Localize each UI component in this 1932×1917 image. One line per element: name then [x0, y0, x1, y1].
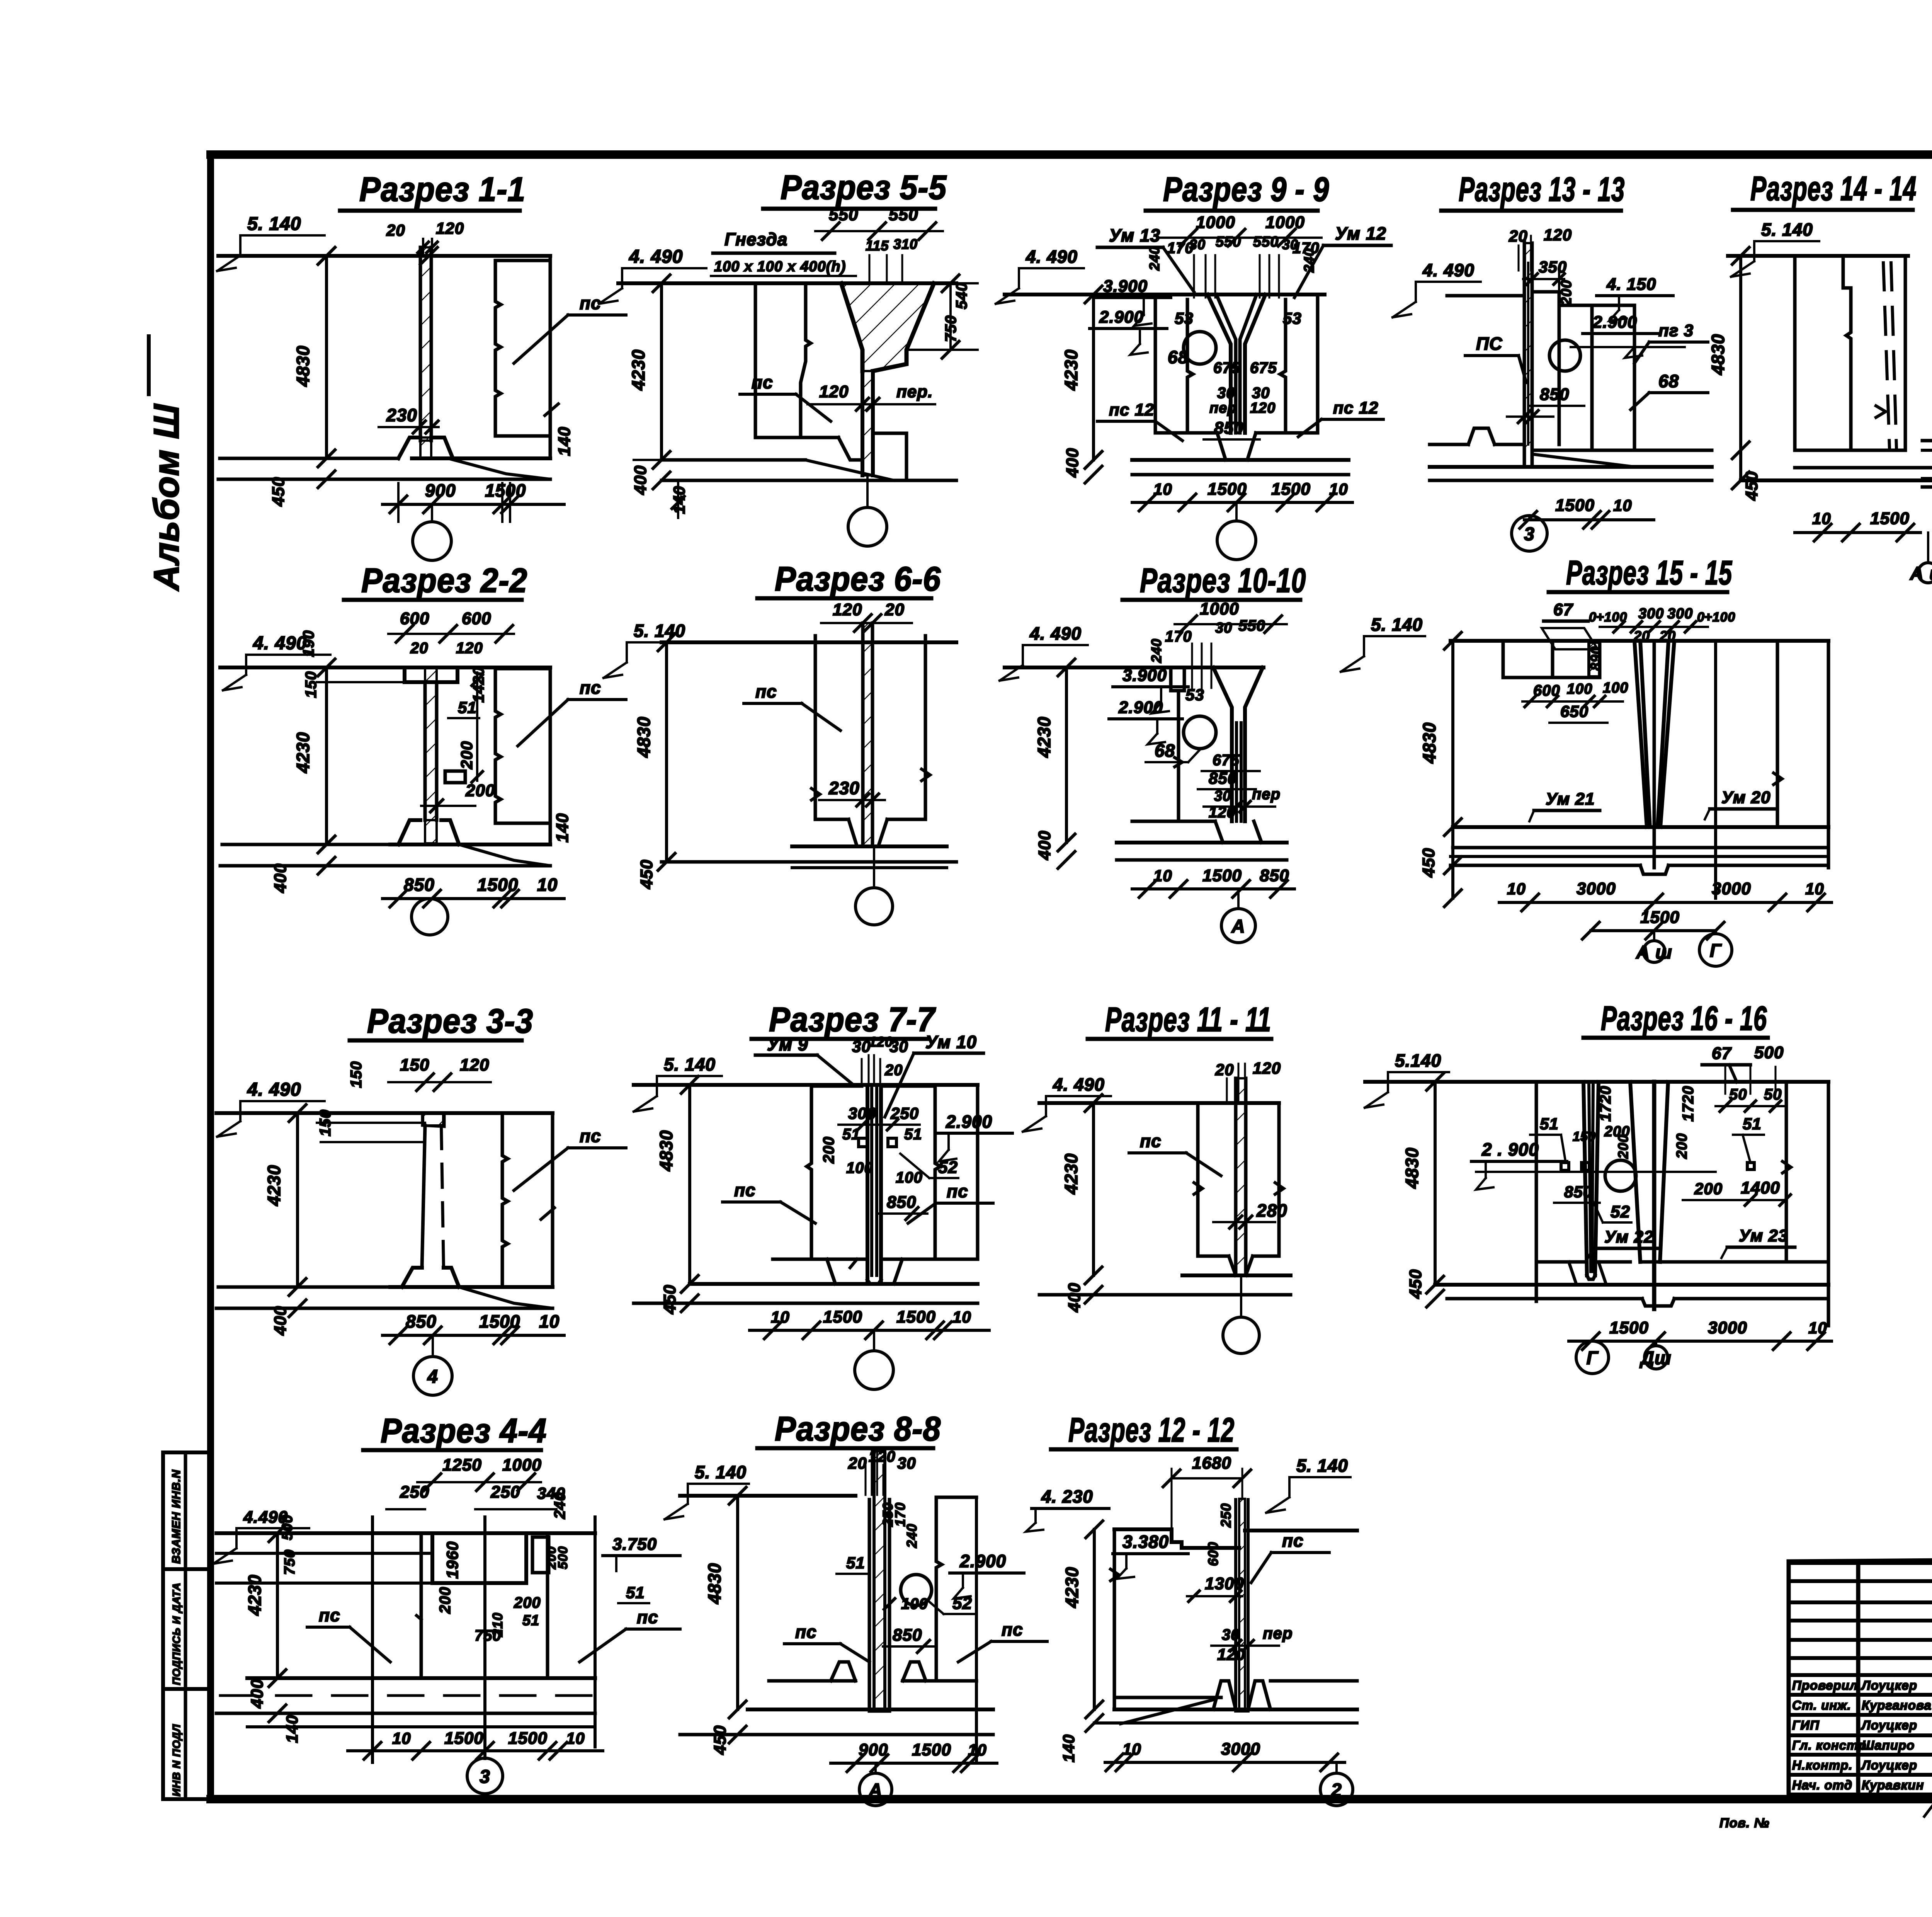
svg-text:600: 600	[1205, 1542, 1221, 1566]
svg-text:400: 400	[1065, 1283, 1084, 1313]
svg-text:51: 51	[1743, 1115, 1762, 1133]
svg-text:Куравкин: Куравкин	[1862, 1778, 1924, 1792]
svg-text:230: 230	[386, 405, 417, 425]
svg-text:100: 100	[1567, 681, 1592, 697]
svg-text:3: 3	[480, 1767, 490, 1787]
svg-text:120: 120	[1544, 226, 1572, 244]
svg-text:53: 53	[1185, 686, 1204, 704]
svg-text:140: 140	[553, 813, 572, 843]
svg-text:4830: 4830	[293, 346, 313, 387]
svg-text:20: 20	[1215, 1061, 1234, 1079]
svg-text:540: 540	[953, 282, 970, 309]
svg-text:450: 450	[269, 477, 288, 507]
svg-text:1500: 1500	[896, 1308, 936, 1326]
svg-text:53: 53	[1283, 309, 1302, 327]
svg-text:10: 10	[1613, 496, 1632, 514]
svg-text:Ум 12: Ум 12	[1335, 223, 1386, 243]
svg-text:3000: 3000	[1712, 879, 1751, 898]
svg-text:68: 68	[1155, 741, 1175, 761]
svg-text:ИНВ N ПОДЛ: ИНВ N ПОДЛ	[170, 1724, 182, 1796]
svg-text:4230: 4230	[1062, 1567, 1082, 1608]
svg-text:51: 51	[842, 1126, 861, 1143]
svg-text:2.900: 2.900	[946, 1112, 992, 1132]
svg-text:190: 190	[300, 630, 317, 657]
svg-text:400: 400	[271, 1306, 290, 1336]
svg-text:пс: пс	[580, 678, 601, 698]
svg-text:2 . 900: 2 . 900	[1481, 1139, 1539, 1159]
svg-text:пс: пс	[319, 1605, 340, 1625]
svg-text:4230: 4230	[628, 349, 648, 391]
svg-text:1000: 1000	[1200, 599, 1239, 618]
svg-text:1500: 1500	[1609, 1318, 1649, 1337]
svg-text:20: 20	[410, 640, 429, 657]
svg-text:Разрез 2-2: Разрез 2-2	[361, 561, 527, 599]
svg-text:Лоуцкер: Лоуцкер	[1861, 1718, 1917, 1732]
svg-text:Лоуцкер: Лоуцкер	[1861, 1758, 1917, 1772]
svg-text:550: 550	[1216, 234, 1241, 250]
svg-text:Ум 22: Ум 22	[1604, 1227, 1653, 1246]
svg-text:1500: 1500	[477, 875, 518, 895]
svg-text:4230: 4230	[1061, 1153, 1081, 1195]
svg-text:30: 30	[1222, 1626, 1240, 1643]
svg-text:170: 170	[1165, 628, 1192, 645]
svg-text:1680: 1680	[1192, 1454, 1231, 1473]
svg-text:150: 150	[400, 1056, 429, 1074]
svg-text:150: 150	[303, 671, 320, 698]
svg-text:пс 12: пс 12	[1333, 398, 1379, 417]
svg-text:Разрез 3-3: Разрез 3-3	[367, 1002, 533, 1040]
svg-text:2.900: 2.900	[1118, 698, 1163, 717]
svg-text:1000: 1000	[502, 1456, 542, 1474]
svg-text:200: 200	[514, 1594, 541, 1611]
svg-text:400: 400	[631, 465, 650, 495]
svg-text:500: 500	[1754, 1043, 1784, 1062]
svg-text:3.900: 3.900	[1103, 277, 1148, 296]
svg-text:1500: 1500	[479, 1311, 520, 1331]
svg-text:1720: 1720	[1680, 1086, 1697, 1122]
svg-text:Разрез 7-7: Разрез 7-7	[769, 1000, 936, 1039]
svg-text:Гнезда: Гнезда	[724, 229, 787, 249]
svg-text:3.900: 3.900	[1122, 666, 1167, 685]
svg-text:120: 120	[1250, 400, 1276, 416]
svg-text:4830: 4830	[1402, 1147, 1422, 1189]
svg-text:30: 30	[1282, 237, 1298, 252]
svg-text:120: 120	[460, 1056, 489, 1074]
svg-text:5. 140: 5. 140	[1296, 1456, 1348, 1476]
svg-text:пс: пс	[752, 372, 773, 392]
svg-text:400: 400	[1035, 831, 1054, 860]
svg-text:Разрез 12 - 12: Разрез 12 - 12	[1068, 1411, 1235, 1449]
svg-text:10: 10	[566, 1729, 585, 1747]
svg-text:240: 240	[551, 1492, 568, 1519]
svg-text:250: 250	[400, 1483, 429, 1502]
svg-text:1500: 1500	[1555, 496, 1595, 515]
svg-text:4830: 4830	[1708, 334, 1728, 375]
svg-text:53: 53	[1175, 309, 1194, 327]
svg-text:850: 850	[404, 875, 435, 895]
svg-text:А ш: А ш	[1636, 942, 1672, 963]
svg-text:100 х 100 х 400(h): 100 х 100 х 400(h)	[714, 259, 846, 275]
svg-text:1500: 1500	[508, 1729, 548, 1748]
svg-text:100: 100	[896, 1169, 923, 1186]
svg-text:3: 3	[1524, 524, 1535, 545]
svg-text:пер: пер	[1252, 786, 1281, 803]
svg-text:4230: 4230	[264, 1165, 284, 1206]
svg-text:Г: Г	[1587, 1348, 1599, 1369]
svg-text:3000: 3000	[1708, 1318, 1747, 1337]
svg-text:Шапиро: Шапиро	[1862, 1738, 1915, 1752]
svg-text:4. 490: 4. 490	[247, 1079, 301, 1100]
svg-text:20: 20	[848, 1454, 867, 1472]
svg-text:150: 150	[348, 1061, 365, 1088]
svg-text:450: 450	[1419, 848, 1438, 878]
svg-text:1500: 1500	[1207, 480, 1247, 499]
svg-text:67: 67	[1553, 600, 1573, 619]
svg-text:250: 250	[890, 1104, 919, 1122]
svg-text:пс: пс	[1140, 1131, 1162, 1151]
svg-text:120: 120	[819, 382, 849, 401]
svg-text:ПОДПИСЬ И ДАТА: ПОДПИСЬ И ДАТА	[170, 1582, 182, 1685]
svg-text:5. 140: 5. 140	[247, 214, 301, 234]
svg-text:4. 490: 4. 490	[253, 633, 307, 654]
svg-text:850: 850	[893, 1626, 922, 1645]
svg-text:120: 120	[869, 1034, 893, 1050]
svg-text:Ум 20: Ум 20	[1721, 788, 1770, 807]
svg-text:120: 120	[1209, 804, 1236, 821]
svg-text:675: 675	[1213, 752, 1240, 769]
svg-text:450: 450	[637, 860, 656, 889]
svg-text:4. 490: 4. 490	[1029, 623, 1082, 644]
svg-text:10: 10	[539, 1311, 560, 1331]
svg-text:51: 51	[1540, 1115, 1559, 1133]
svg-text:850: 850	[1540, 385, 1569, 404]
svg-text:2: 2	[1331, 1780, 1342, 1801]
svg-text:170: 170	[892, 1502, 908, 1527]
svg-text:1300: 1300	[1205, 1574, 1244, 1593]
svg-text:450: 450	[660, 1285, 679, 1314]
svg-text:Дш: Дш	[1639, 1348, 1671, 1369]
svg-text:650: 650	[1560, 702, 1588, 720]
svg-text:1500: 1500	[1271, 480, 1311, 499]
svg-text:150: 150	[1573, 1129, 1596, 1144]
svg-text:300: 300	[848, 1104, 876, 1122]
svg-text:пер.: пер.	[896, 382, 933, 401]
svg-text:200: 200	[820, 1136, 837, 1164]
svg-text:Разрез 15 - 15: Разрез 15 - 15	[1566, 553, 1732, 592]
svg-text:пс: пс	[1002, 1619, 1023, 1639]
svg-text:10: 10	[537, 875, 558, 895]
svg-text:Разрез 1-1: Разрез 1-1	[359, 170, 526, 208]
svg-text:пс: пс	[795, 1622, 817, 1642]
svg-text:1000: 1000	[1196, 213, 1235, 232]
svg-text:4830: 4830	[1419, 722, 1439, 764]
svg-text:Гл. констр.: Гл. констр.	[1792, 1738, 1871, 1752]
svg-text:3000: 3000	[1221, 1740, 1260, 1759]
svg-text:А: А	[868, 1780, 883, 1801]
svg-text:Разрез 9 - 9: Разрез 9 - 9	[1163, 170, 1329, 208]
svg-text:Г: Г	[1710, 941, 1722, 961]
svg-text:100: 100	[846, 1159, 873, 1176]
svg-text:пер: пер	[1263, 1624, 1293, 1642]
svg-text:пс 12: пс 12	[1109, 400, 1155, 419]
svg-text:51: 51	[522, 1612, 539, 1629]
svg-text:5. 140: 5. 140	[664, 1054, 716, 1074]
svg-text:ПС: ПС	[1476, 334, 1502, 354]
svg-text:550: 550	[1253, 234, 1279, 250]
svg-text:300: 300	[1667, 606, 1693, 622]
svg-text:200: 200	[1694, 1180, 1723, 1198]
svg-text:4230: 4230	[245, 1575, 265, 1616]
svg-text:51: 51	[626, 1583, 645, 1602]
svg-text:Разрез 8-8: Разрез 8-8	[775, 1410, 941, 1448]
svg-text:Нач. отд: Нач. отд	[1792, 1778, 1852, 1792]
svg-text:4230: 4230	[1034, 717, 1054, 758]
svg-text:240: 240	[904, 1524, 920, 1548]
svg-text:120: 120	[436, 219, 464, 237]
svg-text:300: 300	[1638, 606, 1664, 622]
svg-text:900: 900	[859, 1740, 888, 1759]
svg-text:10: 10	[968, 1741, 987, 1759]
svg-text:1500: 1500	[485, 480, 526, 501]
svg-text:пс: пс	[734, 1180, 756, 1200]
svg-text:675: 675	[1213, 359, 1240, 376]
svg-text:1500: 1500	[444, 1729, 484, 1748]
svg-text:400: 400	[1063, 448, 1082, 478]
svg-text:4: 4	[427, 1367, 438, 1387]
svg-text:100: 100	[901, 1595, 928, 1612]
svg-text:2.900: 2.900	[1592, 313, 1637, 332]
svg-text:4830: 4830	[704, 1563, 724, 1604]
svg-text:240: 240	[1148, 638, 1164, 663]
svg-text:1500: 1500	[1202, 866, 1242, 885]
svg-text:10: 10	[1153, 480, 1172, 498]
svg-text:140: 140	[555, 427, 574, 456]
svg-text:1000: 1000	[1265, 213, 1305, 232]
svg-text:850: 850	[1209, 769, 1237, 787]
svg-text:Разрез 5-5: Разрез 5-5	[781, 168, 947, 206]
svg-text:пс: пс	[755, 681, 777, 701]
svg-text:600: 600	[462, 609, 491, 628]
svg-text:4. 490: 4. 490	[1053, 1074, 1105, 1095]
svg-text:310: 310	[893, 236, 918, 252]
svg-text:Ум 10: Ум 10	[925, 1032, 977, 1052]
svg-text:3.750: 3.750	[612, 1535, 657, 1554]
svg-text:850: 850	[1260, 866, 1289, 885]
svg-text:200: 200	[457, 741, 476, 770]
svg-text:400: 400	[271, 863, 290, 893]
svg-text:пг 3: пг 3	[1658, 321, 1694, 340]
svg-text:3.380: 3.380	[1122, 1532, 1169, 1552]
svg-text:4230: 4230	[293, 732, 313, 773]
svg-text:Разрез 6-6: Разрез 6-6	[775, 560, 941, 598]
svg-text:120: 120	[833, 600, 862, 619]
svg-text:140: 140	[1060, 1734, 1078, 1762]
svg-text:пс: пс	[637, 1607, 658, 1627]
svg-text:Разрез 14 - 14: Разрез 14 - 14	[1750, 169, 1917, 208]
svg-text:30: 30	[897, 1454, 916, 1472]
svg-text:ВЗАМЕН ИНВ.N: ВЗАМЕН ИНВ.N	[170, 1469, 183, 1564]
svg-text:4. 490: 4. 490	[629, 247, 683, 267]
svg-text:200: 200	[437, 1587, 454, 1614]
svg-text:1400: 1400	[1741, 1178, 1780, 1197]
svg-text:10: 10	[1507, 880, 1526, 898]
svg-text:30: 30	[1189, 237, 1206, 252]
svg-text:2.900: 2.900	[1099, 308, 1144, 327]
svg-text:Лоуцкер: Лоуцкер	[1861, 1678, 1917, 1692]
svg-text:68: 68	[1168, 347, 1188, 367]
svg-text:350: 350	[1539, 258, 1567, 276]
svg-text:120: 120	[1253, 1059, 1281, 1077]
svg-text:100: 100	[1603, 680, 1628, 696]
svg-text:5. 140: 5. 140	[1761, 220, 1813, 240]
svg-text:3000: 3000	[1577, 879, 1616, 898]
svg-text:200: 200	[465, 781, 495, 800]
svg-text:1250: 1250	[442, 1456, 482, 1474]
svg-text:850: 850	[887, 1193, 916, 1212]
svg-text:Ум 9: Ум 9	[767, 1034, 808, 1054]
svg-text:Разрез 16 - 16: Разрез 16 - 16	[1601, 999, 1767, 1037]
svg-text:Разрез 11 - 11: Разрез 11 - 11	[1105, 1000, 1271, 1039]
svg-text:675: 675	[1250, 359, 1277, 376]
svg-text:550: 550	[889, 205, 918, 224]
svg-text:Ум 23: Ум 23	[1739, 1226, 1788, 1245]
svg-text:550: 550	[829, 205, 858, 224]
svg-text:10: 10	[1805, 880, 1824, 898]
svg-text:5.140: 5.140	[1395, 1050, 1441, 1071]
svg-text:А: А	[1231, 916, 1245, 937]
svg-text:240: 240	[1146, 246, 1162, 271]
svg-text:20: 20	[386, 221, 405, 239]
svg-text:4. 150: 4. 150	[1606, 275, 1656, 294]
svg-text:20: 20	[884, 1062, 903, 1079]
svg-text:0÷100: 0÷100	[1697, 610, 1735, 625]
svg-text:4. 490: 4. 490	[1026, 247, 1078, 267]
svg-text:68: 68	[1658, 371, 1679, 391]
svg-text:200: 200	[1674, 1133, 1690, 1159]
svg-text:51: 51	[846, 1554, 865, 1572]
svg-text:пер: пер	[1209, 400, 1237, 416]
svg-text:Ст. инж.: Ст. инж.	[1792, 1698, 1851, 1713]
svg-text:1960: 1960	[443, 1541, 461, 1579]
svg-text:10: 10	[1808, 1319, 1827, 1337]
svg-text:1500: 1500	[912, 1740, 951, 1759]
svg-text:120: 120	[1217, 1645, 1245, 1663]
svg-text:5. 140: 5. 140	[695, 1462, 747, 1482]
svg-text:4230: 4230	[1061, 349, 1081, 391]
svg-text:120: 120	[456, 640, 483, 657]
svg-text:30: 30	[1252, 385, 1270, 402]
svg-text:Ум 13: Ум 13	[1109, 225, 1160, 245]
svg-text:30: 30	[1214, 788, 1231, 804]
svg-text:1500: 1500	[1640, 908, 1680, 927]
svg-text:67: 67	[1712, 1044, 1732, 1063]
svg-text:А ш: А ш	[1910, 564, 1932, 584]
svg-text:пс: пс	[1282, 1531, 1304, 1551]
svg-text:10: 10	[392, 1729, 411, 1747]
svg-text:2.900: 2.900	[959, 1551, 1006, 1571]
svg-text:Проверил: Проверил	[1792, 1678, 1858, 1692]
svg-text:10: 10	[771, 1308, 790, 1326]
svg-text:900: 900	[425, 480, 456, 501]
svg-text:4830: 4830	[656, 1130, 676, 1171]
svg-text:10: 10	[1812, 509, 1831, 528]
svg-text:550: 550	[1238, 617, 1265, 634]
svg-text:10: 10	[1329, 480, 1348, 498]
svg-text:500: 500	[556, 1546, 570, 1569]
svg-text:10: 10	[1153, 867, 1172, 885]
svg-text:200: 200	[1615, 1134, 1631, 1159]
svg-text:51: 51	[904, 1126, 922, 1143]
svg-text:1500: 1500	[823, 1308, 862, 1326]
svg-text:10: 10	[952, 1308, 971, 1326]
svg-text:4. 490: 4. 490	[1422, 260, 1475, 280]
svg-text:4830: 4830	[634, 717, 654, 758]
svg-text:1500: 1500	[1870, 509, 1910, 528]
svg-text:Пов. №: Пов. №	[1719, 1816, 1770, 1830]
svg-text:Курганова: Курганова	[1862, 1698, 1932, 1713]
svg-text:30: 30	[1217, 385, 1235, 402]
svg-text:Разрез 10-10: Разрез 10-10	[1140, 561, 1306, 599]
svg-text:52: 52	[1611, 1202, 1630, 1221]
svg-text:4. 230: 4. 230	[1041, 1486, 1093, 1507]
svg-text:Н.контр.: Н.контр.	[1792, 1758, 1852, 1772]
svg-text:Ум 21: Ум 21	[1546, 790, 1595, 809]
svg-text:500: 500	[279, 1515, 296, 1540]
svg-text:ГИП: ГИП	[1792, 1718, 1820, 1732]
svg-text:450: 450	[711, 1725, 730, 1755]
svg-text:230: 230	[828, 778, 860, 798]
svg-text:250: 250	[1218, 1503, 1234, 1528]
svg-text:140: 140	[283, 1715, 301, 1743]
svg-text:450: 450	[1406, 1269, 1425, 1299]
svg-text:пс: пс	[947, 1181, 968, 1201]
svg-text:Альбом Ш: Альбом Ш	[147, 403, 186, 591]
svg-text:850: 850	[406, 1311, 437, 1331]
svg-text:52: 52	[952, 1594, 972, 1613]
svg-text:52: 52	[938, 1158, 958, 1177]
svg-text:890: 890	[1588, 646, 1604, 671]
svg-text:30: 30	[1215, 620, 1232, 636]
svg-text:250: 250	[490, 1483, 520, 1502]
svg-text:пс: пс	[580, 1126, 601, 1146]
svg-text:30: 30	[852, 1037, 871, 1056]
svg-text:Разрез 13 - 13: Разрез 13 - 13	[1459, 170, 1625, 208]
svg-text:400: 400	[248, 1679, 267, 1709]
svg-text:5. 140: 5. 140	[634, 621, 685, 641]
svg-text:5. 140: 5. 140	[1371, 615, 1423, 635]
svg-text:20: 20	[884, 600, 905, 619]
svg-text:280: 280	[1256, 1200, 1287, 1221]
svg-text:Разрез 4-4: Разрез 4-4	[381, 1411, 547, 1450]
svg-text:115: 115	[866, 238, 889, 254]
svg-text:850: 850	[1564, 1183, 1592, 1201]
svg-text:10: 10	[1122, 1740, 1141, 1758]
svg-text:750: 750	[474, 1627, 502, 1644]
